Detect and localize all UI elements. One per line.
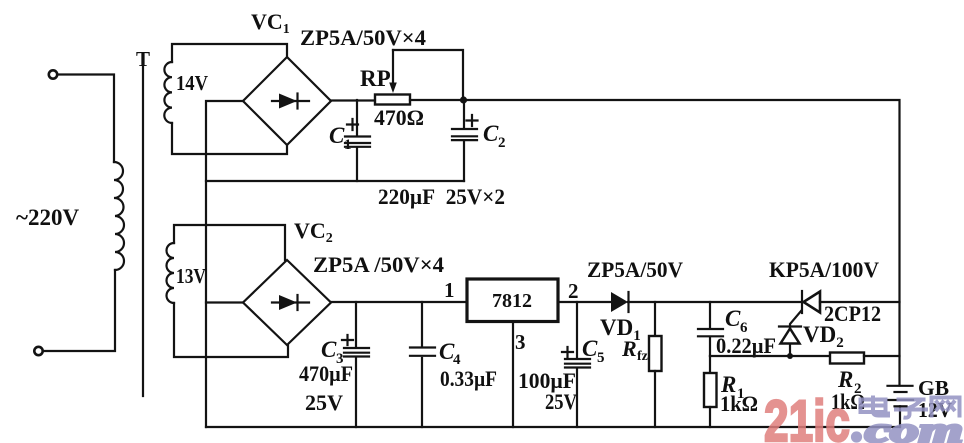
potentiometer RP body	[375, 95, 410, 105]
wire C6/R1 junction to R2	[710, 355, 830, 357]
capacitor C1	[356, 100, 358, 135]
wire VC2 left vertex to ground rail	[206, 301, 243, 303]
bridge rectifier VC1	[243, 57, 331, 145]
capacitor C2	[463, 100, 465, 128]
wire 7812 pin3 to ground	[512, 322, 514, 428]
wire C1/C2 negative bus	[206, 180, 464, 182]
wire bottom terminal to primary	[43, 270, 115, 351]
svg-text:1: 1	[444, 278, 455, 302]
capacitor C6	[709, 302, 711, 328]
svg-text:470µF: 470µF	[299, 361, 353, 386]
transformer 14V secondary winding	[164, 62, 172, 123]
svg-text:13V: 13V	[176, 264, 206, 288]
capacitor C5	[576, 302, 578, 358]
junction dot VD2 bottom	[787, 353, 793, 359]
svg-text:0.33µF: 0.33µF	[440, 366, 497, 391]
RP wiper arrow	[392, 50, 394, 84]
svg-text:1kΩ: 1kΩ	[720, 391, 758, 416]
svg-text:ZP5A /50V×4: ZP5A /50V×4	[313, 252, 444, 277]
resistor R2	[830, 353, 864, 364]
ground bus wire	[206, 426, 900, 428]
wire VC2 right vertex to 7812 pin1	[331, 301, 467, 303]
watermark 电	[861, 396, 889, 416]
svg-text:2: 2	[568, 279, 579, 303]
thyristor KP5A	[801, 291, 803, 313]
KP5A gate wire	[790, 311, 801, 327]
wire 14V top to VC1 top vertex	[172, 44, 287, 62]
regulator U1 7812	[467, 279, 558, 322]
svg-text:T: T	[136, 47, 150, 71]
svg-text:3: 3	[515, 330, 526, 354]
wire 14V bottom to VC1 bottom vertex	[172, 123, 287, 154]
svg-text:0.22µF: 0.22µF	[716, 333, 776, 358]
svg-text:R: R	[621, 336, 637, 361]
wire 7812 pin2 to VD1	[558, 301, 611, 303]
svg-text:C: C	[582, 336, 598, 361]
node: top AC input terminal	[49, 70, 57, 78]
wire VC1 left vertex to ground rail	[206, 101, 243, 427]
capacitor C3	[355, 302, 357, 347]
junction dot	[460, 96, 467, 103]
transformer core	[142, 66, 144, 396]
svg-text:KP5A/100V: KP5A/100V	[769, 257, 879, 282]
svg-text:2: 2	[498, 135, 506, 151]
watermark dot	[851, 431, 862, 442]
watermark 子	[894, 400, 928, 418]
bridge rectifier VC2	[243, 260, 331, 345]
wire 13V top to VC2 top vertex	[174, 225, 285, 260]
capacitor C4	[421, 302, 423, 346]
svg-text:5: 5	[597, 350, 605, 366]
svg-text:C: C	[329, 123, 345, 148]
svg-text:fz: fz	[637, 349, 648, 364]
svg-text:14V: 14V	[176, 71, 208, 95]
watermark 网	[932, 398, 960, 418]
node: bottom AC input terminal	[34, 347, 42, 355]
svg-text:C: C	[321, 337, 337, 362]
transformer 13V secondary winding	[167, 243, 175, 303]
transformer T primary winding ~220V	[114, 162, 124, 270]
diode VD1	[611, 292, 628, 312]
resistor Rfz	[654, 302, 656, 336]
svg-text:RP: RP	[360, 66, 391, 91]
diode VD2 2CP12	[779, 325, 801, 327]
svg-text:25V: 25V	[545, 389, 577, 414]
svg-text:21ic: 21ic	[764, 389, 850, 443]
VC2 inner diode	[272, 301, 309, 303]
WATERMARK	[764, 389, 963, 443]
svg-text:25V: 25V	[305, 390, 343, 415]
C2 plus sign	[467, 115, 478, 126]
RP bypass wire	[393, 50, 463, 100]
wire VC1 right vertex to RP	[331, 99, 375, 101]
wire 13V bottom to VC2 bottom vertex	[174, 303, 288, 357]
VC1 inner diode	[272, 100, 309, 102]
C1 plus sign	[347, 119, 358, 130]
svg-text:ZP5A/50V×4: ZP5A/50V×4	[300, 25, 426, 50]
svg-text:C: C	[725, 306, 741, 331]
resistor R1	[709, 356, 711, 373]
svg-text:ZP5A/50V: ZP5A/50V	[587, 257, 683, 282]
wire RP to right rail (top rail y=100)	[410, 100, 900, 386]
svg-text:7812: 7812	[492, 290, 532, 312]
svg-text:470Ω: 470Ω	[374, 105, 424, 130]
C3 plus sign	[342, 335, 353, 345]
svg-text:1: 1	[344, 137, 352, 153]
svg-text:C: C	[483, 121, 499, 146]
svg-text:~220V: ~220V	[16, 205, 79, 230]
wire top terminal to primary	[58, 75, 115, 163]
battery GB	[888, 385, 913, 387]
C5 plus sign	[562, 347, 573, 357]
svg-text:220µF 25V×2: 220µF 25V×2	[378, 184, 505, 209]
